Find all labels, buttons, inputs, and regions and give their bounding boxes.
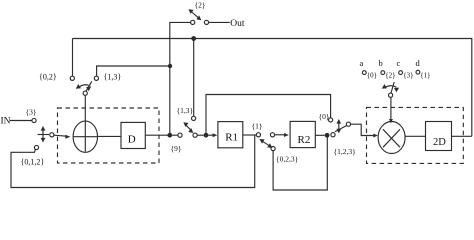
wire multiplier to 2D [405,135,425,137]
wire R1 out [243,134,256,136]
wire to Out terminal [209,21,230,23]
node R2-switch contact after dot [331,133,335,137]
node adder-switch right contact {1,3} [94,76,98,80]
wire dot to left contact [172,134,178,136]
node adder-switch left contact {0,2} [70,76,74,80]
svg-text:{1,3}: {1,3} [177,106,194,115]
node R2 output junction [325,133,330,138]
switch S5 blade [262,141,271,147]
svg-text:{0}: {0} [319,112,330,121]
block D [121,122,145,148]
svg-text:R1: R1 [225,132,238,144]
node S1 pole [50,133,54,137]
wire rail left leg [72,39,74,77]
op multiplier M1 [378,122,405,154]
node R1R2-switch left contact {1} [256,133,260,137]
op adder A1 [73,121,97,152]
node out-switch right contact [204,20,208,24]
wire y66 to adder switch right contact [97,66,169,76]
node D-output junction [167,133,172,138]
wire right contact to R1 node [197,134,203,136]
wire adder to D [98,135,121,137]
block R2 [290,121,315,147]
svg-text:{3}: {3} [26,108,37,117]
svg-text:IN: IN [1,117,11,127]
node coeff c contact [399,71,403,75]
rail top feedback [73,39,472,137]
node R1R2-switch lower contact {0,2,3} [271,147,275,151]
node D-R1 switch left contact [178,133,182,137]
node coeff d contact [416,70,420,74]
switch S6 blade [335,126,346,132]
adder plus vertical / top input [84,96,86,152]
svg-text:{0,1,2}: {0,1,2} [21,157,45,166]
svg-text:D: D [128,133,136,145]
svg-text:{1,2,3}: {1,2,3} [334,147,356,156]
svg-text:c: c [397,58,401,68]
switch S4 blade [185,124,191,131]
adder input arrowhead [65,135,70,139]
switch S2 adder-feed blade [86,81,92,91]
switch S7 blade [391,82,394,93]
svg-text:{0,2,3}: {0,2,3} [276,155,298,164]
switch S1 arrow [42,129,44,141]
wire feedback bottom-left [11,135,255,187]
node adder-switch pole [83,91,87,95]
node coeff b contact [381,71,385,75]
block R1 [218,122,243,148]
node S7 pole [389,93,393,97]
wire R2 recirculate loop [273,138,327,190]
switch S2 arrow [78,85,89,88]
wire arrow into R1 [208,134,213,136]
switch S3 out blade [191,11,200,19]
wire R2 out [315,134,324,136]
wire switch pole to multiplier [351,124,374,135]
switch S1 input selector blade [38,134,50,136]
wire D to node [145,134,167,136]
switch S6 arrow [338,122,340,131]
svg-text:{0,2}: {0,2} [39,73,57,82]
svg-text:{0}: {0} [367,72,377,80]
node IN bottom contact {0,1,2} [34,145,38,149]
wire rail dot down to {1,3} contact [193,40,195,116]
svg-text:{9}: {9} [171,144,182,153]
svg-text:{2}: {2} [195,1,206,10]
svg-text:{1,3}: {1,3} [104,73,122,82]
node junction at y66 [168,64,172,68]
wire S1 pole to adder [54,135,67,136]
wire 2D out [452,135,472,137]
node R2-switch upper contact {0} [329,118,333,122]
node R2-switch right contact pole [346,122,350,126]
adder plus horizontal [73,136,97,138]
switch S7 selector arrow [385,86,397,88]
dashed box 2D-section [367,107,464,163]
node R1 input junction [204,133,209,138]
node IN top contact {3} [32,118,36,122]
wire R1-node bypass up-over to {0} contact [206,95,331,134]
node R1R2-switch right contact [270,133,274,137]
wire selector pole down to multiplier [390,97,392,119]
svg-text:a: a [360,58,364,68]
svg-text:{2}: {2} [385,72,395,80]
node coeff a contact [362,71,366,75]
node D-R1 switch upper contact {1,3} [192,116,196,120]
svg-text:b: b [379,58,383,68]
multiplier X strokes [383,129,400,147]
wire arrow into R2 [275,134,284,136]
svg-text:R2: R2 [298,134,311,146]
node D-R1 switch right contact [193,133,197,137]
wire IN input [10,120,32,122]
svg-text:{1}: {1} [252,122,263,131]
wire vertical x170 up to Out switch [170,22,191,135]
svg-text:{3}: {3} [403,72,413,80]
block 2D [426,122,452,151]
svg-text:2D: 2D [433,137,446,148]
node rail junction [191,36,196,41]
svg-text:Out: Out [230,19,245,29]
node out-switch left contact [191,20,195,24]
dashed box D-section [58,108,160,163]
svg-text:{1}: {1} [420,71,430,79]
